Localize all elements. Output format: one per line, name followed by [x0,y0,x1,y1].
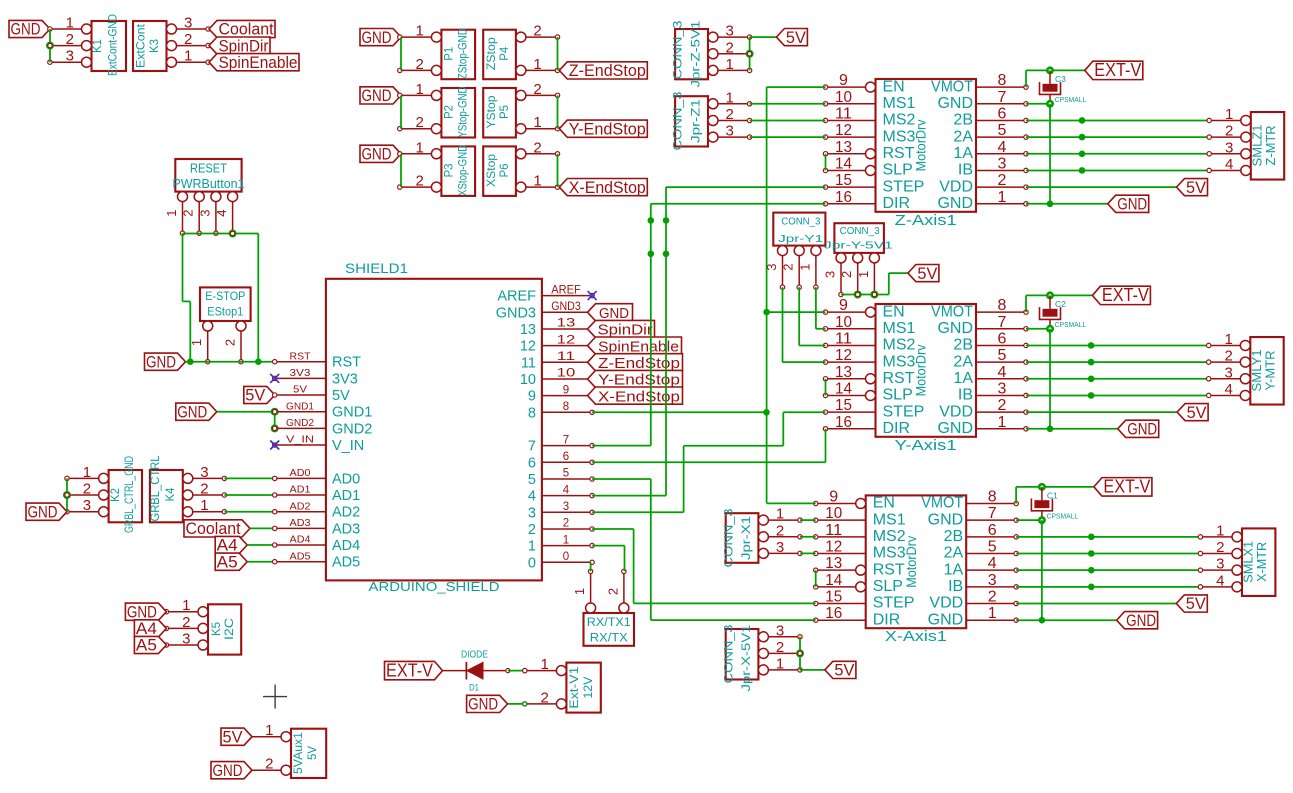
wire VMOT to EXT-V [1016,487,1094,504]
svg-text:Coolant: Coolant [186,520,241,538]
wire RST net [186,361,275,363]
svg-text:1: 1 [416,139,424,156]
svg-text:1: 1 [416,81,424,98]
junction cap top C2 [1046,291,1054,299]
junction Z-DIR b [648,251,655,258]
junction Z-STEP b [663,251,670,258]
wire P6 pins [557,154,559,187]
svg-text:GND: GND [362,146,392,164]
svg-text:2: 2 [223,339,238,346]
svg-text:10: 10 [557,368,576,380]
svg-text:4: 4 [998,139,1007,156]
svg-text:GND1: GND1 [332,405,372,421]
svg-text:P3: P3 [444,163,456,177]
svg-text:CONN_3: CONN_3 [671,20,685,79]
cross marker [263,685,287,709]
junction motor 1B [1088,392,1095,399]
svg-text:9: 9 [563,384,569,396]
svg-text:SLP: SLP [883,162,913,179]
wire motor 2A [1016,553,1200,555]
svg-text:A4: A4 [136,620,157,638]
svg-text:AD5: AD5 [290,550,311,562]
wire GND bus P3 [400,154,402,187]
svg-text:GND: GND [937,420,973,437]
global label Z-EndStop [559,62,647,80]
svg-text:GND1: GND1 [286,400,314,412]
junction EN/pin8 [763,409,770,416]
svg-text:1: 1 [726,56,734,73]
global label GND (E-STOP) [145,353,186,371]
global label GND (GND1) [176,403,217,421]
svg-text:2: 2 [184,31,192,48]
wire AD3 [250,527,275,529]
svg-text:SLP: SLP [873,578,903,595]
svg-text:SLP: SLP [883,387,913,404]
junction GND rail [1047,425,1054,432]
connector SMLX1 (X-MTR) [1198,522,1275,596]
svg-text:EStop1: EStop1 [207,307,243,319]
junction Jpr-Y-5V1 pin2 [854,291,862,299]
svg-text:9: 9 [829,489,838,506]
svg-text:V_IN: V_IN [286,434,314,446]
wire VDD to 5V [1026,411,1177,413]
svg-text:A4: A4 [217,537,238,555]
svg-text:VDD: VDD [929,595,963,612]
wire motor 1A [1016,569,1200,571]
svg-text:GND: GND [11,21,41,39]
diode D1 [443,649,511,694]
svg-text:2: 2 [265,756,273,773]
connector Jpr-X1 (CONN_3) [722,506,803,568]
svg-text:Y-EndStop: Y-EndStop [569,120,646,138]
svg-text:MotorDrv: MotorDrv [913,119,929,171]
connector Jpr-Y-5V1 (CONN_3) [823,223,894,296]
svg-text:3: 3 [83,497,91,514]
svg-text:14: 14 [835,155,852,172]
svg-text:2A: 2A [944,545,964,562]
svg-text:1: 1 [1216,522,1224,539]
svg-text:Jpr-Y-5V1: Jpr-Y-5V1 [824,240,893,252]
svg-text:2: 2 [1225,123,1233,140]
svg-text:GND3: GND3 [551,301,581,313]
global label 5V (Jpr-Y-5V1) [908,265,939,283]
svg-text:DIR: DIR [873,611,901,628]
svg-text:7: 7 [998,89,1007,106]
svg-text:11: 11 [521,355,536,371]
global label Coolant [209,20,275,38]
svg-text:MS3: MS3 [883,353,916,370]
svg-text:GND: GND [362,87,392,105]
svg-text:ZStop-GND: ZStop-GND [456,28,470,79]
wire GND bus P1 [400,37,402,70]
svg-text:K3: K3 [149,39,161,53]
svg-text:GND: GND [468,696,498,714]
svg-text:2A: 2A [953,353,973,370]
connector P3 [398,139,476,196]
junction cap bottom [1046,100,1054,108]
wire Jpr-Y1 pin2 to Y MS2 [799,287,825,345]
wire driver GND to cap [1026,103,1050,105]
svg-text:YStop: YStop [484,95,498,128]
svg-text:5V: 5V [834,662,854,680]
svg-text:1: 1 [726,89,734,106]
svg-text:Coolant: Coolant [219,21,274,39]
wire Jpr-X-5V1 to 5V [800,637,825,670]
global label 5V (VDD) [1176,595,1207,613]
svg-text:IB: IB [958,162,973,179]
svg-text:1: 1 [533,114,541,131]
svg-text:6: 6 [563,451,569,463]
svg-text:1: 1 [1225,106,1233,123]
svg-text:SMLZ1: SMLZ1 [1250,124,1264,166]
IC SHIELD1 (ARDUINO_SHIELD) [273,261,595,594]
svg-text:10: 10 [835,314,852,331]
global label GND (P3) [360,145,401,163]
wire GND to Ext-V1 pin2 [508,702,527,706]
wire Y-STEP net (pin3) [592,412,825,512]
junction RST net left [187,358,194,365]
svg-text:2: 2 [181,209,196,216]
global label SpinDir (pin13) [588,320,655,338]
svg-text:2: 2 [416,114,424,131]
connector SMLZ1 (Z-MTR) [1207,106,1284,180]
svg-text:1: 1 [265,722,273,739]
svg-text:2: 2 [776,639,784,656]
motor driver Y-Axis1 [823,297,1028,454]
no-connect 3V3 [270,374,279,383]
global label GND (driver) [1108,195,1149,213]
svg-text:7: 7 [988,505,997,522]
svg-text:V_IN: V_IN [332,438,364,454]
svg-text:3: 3 [998,155,1007,172]
svg-text:RST: RST [332,355,361,371]
global label EXT-V [1085,60,1143,80]
svg-text:1: 1 [563,534,569,546]
svg-text:1: 1 [416,23,424,40]
svg-text:2: 2 [998,172,1007,189]
svg-text:GND: GND [146,353,176,371]
svg-text:E-STOP: E-STOP [205,291,245,303]
svg-text:RST: RST [883,370,915,387]
connector 5VAux1 [247,722,326,778]
svg-text:GND: GND [1126,612,1156,630]
svg-text:15: 15 [825,589,842,606]
svg-text:2: 2 [528,522,536,538]
svg-text:5V: 5V [1187,404,1207,422]
svg-text:AD3: AD3 [290,517,311,529]
wire cap to GND rail [1049,104,1051,204]
svg-text:12: 12 [835,347,852,364]
global label GND (driver) [1117,612,1158,630]
svg-text:SMLY1: SMLY1 [1250,349,1264,391]
svg-text:5V: 5V [245,387,265,405]
wire AD2 [224,511,274,513]
svg-text:8: 8 [998,297,1007,314]
svg-text:13: 13 [520,322,536,338]
svg-text:0: 0 [563,551,569,563]
svg-text:3: 3 [823,271,838,278]
svg-text:6: 6 [528,455,536,471]
svg-text:MotorDrv: MotorDrv [913,344,929,396]
wire RESET pin4 down [257,234,259,362]
wire Jpr-Y1 pin1 to Y MS1 [816,287,826,329]
wire AD4 [247,544,275,546]
svg-text:15: 15 [835,397,852,414]
svg-text:P6: P6 [499,163,511,177]
svg-text:ExtCont: ExtCont [136,23,148,68]
global label 5V (Jpr-Z-5V1) [776,29,807,47]
wire motor 2B [1026,119,1209,121]
svg-text:VDD: VDD [939,178,973,195]
junction motor 2B [1088,342,1095,349]
svg-text:2: 2 [533,139,541,156]
svg-text:MS3: MS3 [883,128,916,145]
wire EN vertical [767,87,826,503]
svg-text:EN: EN [883,303,905,320]
wire P5 pins [557,95,559,128]
wire EN net (pin8) [592,411,766,413]
svg-text:CONN_3: CONN_3 [840,225,880,237]
svg-text:8: 8 [528,405,536,421]
svg-text:C2: C2 [1055,299,1066,309]
svg-text:Jpr-Z1: Jpr-Z1 [689,99,703,143]
global label 5V (Jpr-X-5V1) [825,661,856,679]
svg-text:MS2: MS2 [883,337,916,354]
svg-text:1: 1 [572,588,587,595]
svg-text:3: 3 [66,48,74,65]
junction RST net right [255,358,262,365]
global label 5V (VDD) [1177,404,1208,422]
svg-text:2: 2 [416,173,424,190]
svg-text:2: 2 [988,589,997,606]
junction motor 2A [1088,550,1095,557]
svg-text:0: 0 [528,555,536,571]
svg-text:EXT-V: EXT-V [1094,60,1141,80]
svg-text:1: 1 [856,271,871,278]
svg-text:AD2: AD2 [290,500,311,512]
svg-text:2A: 2A [953,128,973,145]
svg-text:I2C: I2C [224,618,236,640]
svg-text:GRBL_CTRL: GRBL_CTRL [150,455,162,522]
svg-text:4: 4 [988,555,997,572]
svg-text:1: 1 [66,15,74,32]
svg-text:13: 13 [825,555,842,572]
connector K2 [65,456,142,533]
svg-text:ARDUINO_SHIELD: ARDUINO_SHIELD [369,579,500,594]
svg-text:Y-Axis1: Y-Axis1 [895,437,957,454]
svg-text:2: 2 [533,23,541,40]
svg-text:VMOT: VMOT [921,495,963,512]
svg-text:RX/TX: RX/TX [590,633,628,645]
svg-text:GND2: GND2 [286,417,314,429]
junction motor 2B [1079,117,1086,124]
svg-text:9: 9 [528,389,536,405]
svg-text:RESET: RESET [190,162,227,176]
wire RESET pins bus [183,233,259,235]
svg-text:2: 2 [998,397,1007,414]
svg-text:2: 2 [781,263,796,270]
svg-text:DIR: DIR [883,195,911,212]
wire Jpr-Y1 pin3 to Y MS3 [783,287,826,362]
svg-text:A5: A5 [136,637,157,655]
svg-text:14: 14 [835,380,852,397]
svg-text:8: 8 [563,401,569,413]
global label Coolant (AD3) [184,520,250,538]
svg-text:2: 2 [1224,348,1232,365]
svg-text:RST: RST [290,350,312,362]
svg-text:1: 1 [776,506,784,523]
wire cap to GND rail [1041,520,1043,620]
svg-text:C3: C3 [1055,74,1066,84]
svg-text:GND2: GND2 [332,421,372,437]
svg-text:1A: 1A [944,561,964,578]
svg-text:12V: 12V [583,676,595,698]
junction Z-STEP a [663,217,670,224]
junction cap bottom [1046,325,1054,333]
svg-text:2: 2 [563,518,569,530]
svg-text:2: 2 [1216,539,1224,556]
junction GND rail [1039,617,1046,624]
svg-text:1: 1 [189,339,204,346]
svg-text:6: 6 [988,522,997,539]
svg-text:STEP: STEP [883,403,925,420]
svg-text:EN: EN [883,78,905,95]
global label GND (P2) [360,87,401,105]
svg-text:4: 4 [998,364,1007,381]
wire Jpr-X1 pin2 to X MS2 [800,536,816,538]
svg-text:Z-MTR: Z-MTR [1264,125,1278,165]
svg-text:Jpr-X-5V1: Jpr-X-5V1 [739,624,753,691]
switch EStop1 (E-STOP) [189,287,250,364]
svg-text:VDD: VDD [939,403,973,420]
svg-text:16: 16 [825,605,842,622]
svg-text:8: 8 [988,489,997,506]
svg-text:MS1: MS1 [883,320,916,337]
svg-text:16: 16 [835,414,852,431]
svg-text:5V: 5V [332,388,350,404]
svg-text:CPSMALL: CPSMALL [1055,320,1087,329]
svg-text:DIR: DIR [883,420,911,437]
connector K3 [133,15,210,72]
connector K1 [48,14,126,76]
svg-text:11: 11 [825,522,842,539]
svg-text:A5: A5 [217,553,238,571]
wire diode to Ext-V1 [508,669,527,673]
global label SpinEnable (pin12) [588,337,682,355]
global label A5 (K5) [134,636,166,654]
svg-text:K4: K4 [165,487,177,502]
svg-text:7: 7 [998,314,1007,331]
svg-text:5V: 5V [1186,595,1206,613]
wire motor 1A [1026,153,1209,155]
svg-text:P5: P5 [499,105,511,119]
svg-text:SMLX1: SMLX1 [1242,541,1256,583]
svg-text:10: 10 [825,505,842,522]
svg-text:3: 3 [1216,556,1224,573]
svg-text:12: 12 [825,539,842,556]
svg-text:C1: C1 [1047,490,1058,500]
svg-text:3: 3 [563,501,569,513]
svg-text:4: 4 [528,489,536,505]
connector P4 [483,23,560,80]
global label GND (GND3) [588,304,633,322]
wire motor 1A [1026,378,1209,380]
svg-text:SHIELD1: SHIELD1 [345,261,408,276]
wire Jpr-Z1 pin3 to Z MS3 [750,136,826,138]
svg-text:IB: IB [958,387,973,404]
svg-text:4: 4 [1216,572,1224,589]
svg-text:7: 7 [563,434,569,446]
svg-text:GND: GND [937,195,973,212]
global label A5 [215,553,247,571]
svg-text:3: 3 [1224,364,1232,381]
svg-text:AD1: AD1 [332,488,360,504]
wire Jpr-Z1 pin2 to Z MS2 [750,120,826,122]
connector RX/TX1 [572,569,634,646]
svg-text:3: 3 [1225,139,1233,156]
svg-text:5: 5 [998,347,1007,364]
wire driver GND to cap [1016,519,1042,521]
connector Jpr-Y1 (CONN_3) [764,213,825,290]
svg-text:1: 1 [533,173,541,190]
global label A4 [215,536,247,554]
svg-text:GND: GND [937,320,973,337]
svg-text:VMOT: VMOT [931,303,973,320]
wire motor 2B [1026,344,1209,346]
wire VMOT to EXT-V [1026,295,1092,312]
wire RESET pin1 down-left [183,234,191,362]
svg-text:MS3: MS3 [873,545,906,562]
svg-text:VMOT: VMOT [931,78,973,95]
svg-text:MS2: MS2 [883,112,916,129]
svg-text:12: 12 [520,339,536,355]
wire AD0 [224,477,274,479]
svg-text:3: 3 [726,123,734,140]
svg-text:GND: GND [928,611,964,628]
svg-text:2: 2 [66,31,74,48]
svg-text:CONN_3: CONN_3 [671,91,685,150]
junction motor 1A [1088,567,1095,574]
svg-text:3V3: 3V3 [290,367,311,379]
junction cap top C3 [1046,66,1054,74]
svg-text:AD4: AD4 [290,534,311,546]
svg-text:Ext-V1: Ext-V1 [569,667,581,709]
svg-text:12: 12 [557,334,576,346]
global label 5V (shield) [244,386,275,404]
connector K4 [150,455,227,522]
junction GND1 [271,408,279,416]
svg-text:9: 9 [839,297,848,314]
global label EXT-V [1092,285,1150,305]
svg-text:STEP: STEP [873,595,915,612]
global label SpinDir [209,37,270,55]
svg-text:2: 2 [605,588,620,595]
wire Jpr-Z-5V1 to 5V [750,37,777,70]
junction Jpr-Z-5V1 pin2 [746,50,754,58]
junction K2 pin2 [63,491,71,499]
svg-text:AREF: AREF [497,289,536,305]
svg-text:6: 6 [998,330,1007,347]
global label GND (driver) [1118,420,1159,438]
svg-text:X-Axis1: X-Axis1 [885,628,947,645]
svg-text:15: 15 [835,172,852,189]
svg-text:3: 3 [998,380,1007,397]
wire Y RST-SLP tie [825,379,827,396]
connector P2 [398,81,476,138]
junction motor 2A [1079,134,1086,141]
svg-text:Z-Axis1: Z-Axis1 [895,212,957,229]
wire motor 2A [1026,361,1209,363]
